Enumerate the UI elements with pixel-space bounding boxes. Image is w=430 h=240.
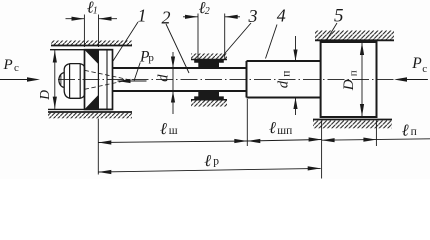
label Dp (341, 70, 359, 91)
dimension l_sh line (98, 141, 247, 143)
washer inner seam (106, 50, 108, 110)
left support bottom hatch (48, 113, 132, 119)
force Pp leader (134, 63, 140, 81)
middle support bottom line (191, 99, 227, 101)
extension line below washer (97, 119, 99, 175)
label 3 (248, 6, 258, 26)
svg-text:1: 1 (93, 6, 98, 17)
svg-text:с: с (422, 63, 427, 75)
label Pp (139, 49, 154, 66)
svg-text:d: d (155, 74, 171, 82)
label l_sh (160, 119, 178, 138)
label D (37, 90, 52, 101)
washer bottom edge (D extension) (48, 108, 113, 110)
washer top edge (D extension) (50, 49, 113, 51)
right support bottom hatch (313, 120, 392, 128)
dimension l2 extension lines (197, 14, 199, 60)
label d (155, 74, 171, 82)
tail rod bottom edge (247, 97, 321, 99)
left support bottom line (48, 111, 132, 113)
dimension l_p line (322, 139, 430, 140)
cone seam line (97, 50, 99, 110)
dimension D line (54, 50, 56, 109)
cone sleeve section bottom (black) (85, 95, 98, 109)
dimension Dp line (361, 43, 363, 117)
label 2 (162, 8, 171, 28)
cone sleeve section top (black) (85, 50, 98, 64)
leader 1 (113, 22, 138, 61)
rod bottom edge (113, 90, 247, 92)
label 4 (277, 6, 286, 26)
svg-text:5: 5 (334, 6, 344, 27)
svg-text:р: р (213, 155, 219, 167)
svg-text:d: d (276, 80, 292, 88)
label 1 (138, 5, 147, 25)
leader 5 (325, 23, 337, 43)
svg-text:4: 4 (277, 6, 286, 26)
label dp (276, 71, 293, 89)
dimension l_shp line (247, 140, 321, 142)
svg-text:2: 2 (205, 6, 210, 17)
bolt nut (64, 64, 84, 99)
middle support top hatch (191, 54, 227, 60)
dimension d line (172, 52, 174, 114)
label 5 (334, 6, 344, 27)
middle support bottom hatch (191, 101, 227, 107)
washer body (85, 50, 113, 110)
right support top hatch (315, 31, 394, 41)
step face line (246, 61, 248, 98)
label Pc right (411, 55, 427, 75)
svg-text:р: р (148, 52, 154, 64)
leader 4 (266, 25, 278, 59)
extension line below piston right (375, 121, 377, 147)
label l1 (87, 0, 98, 17)
bushing bottom (black with wings) (194, 91, 224, 99)
svg-text:ℓ: ℓ (269, 118, 276, 137)
bushing top (black with wings) (194, 60, 224, 68)
extension line below step (246, 99, 248, 146)
dimension l_r line (98, 168, 320, 172)
hidden cone line bottom (85, 80, 130, 89)
piston body (321, 42, 377, 117)
bolt thread end (59, 73, 65, 88)
svg-text:п: п (347, 70, 359, 76)
hidden cone line top (85, 70, 130, 79)
dimension l2 line and arrows (183, 16, 198, 18)
svg-text:P: P (411, 55, 422, 72)
label l2 (199, 0, 210, 17)
middle support top line (191, 59, 227, 61)
rod top edge (113, 67, 247, 69)
svg-text:ш: ш (169, 125, 178, 137)
dimension l1 extension lines (83, 15, 85, 48)
left support top line (51, 45, 132, 47)
dimension l1 line and arrows (66, 18, 85, 20)
right support top line (315, 39, 394, 41)
force Pc left arrow (0, 77, 40, 81)
svg-text:D: D (37, 90, 52, 101)
svg-text:ℓ: ℓ (160, 119, 167, 138)
label l_shp (269, 118, 292, 137)
nut facet lines (69, 64, 71, 98)
label Pc left (3, 57, 20, 74)
svg-text:1: 1 (138, 5, 147, 25)
svg-text:п: п (411, 126, 417, 138)
tail rod top edge (247, 60, 321, 62)
svg-text:ℓ: ℓ (402, 120, 409, 139)
svg-text:P: P (3, 57, 13, 73)
centerline (58, 79, 428, 81)
svg-text:шп: шп (277, 125, 292, 137)
svg-text:3: 3 (248, 6, 258, 26)
extension line below piston left (321, 121, 323, 179)
dimension dp line (295, 36, 297, 61)
left support top hatch (51, 41, 132, 46)
leader 2 (166, 24, 189, 73)
force Pp arrow (118, 80, 147, 82)
svg-text:п: п (280, 71, 292, 77)
svg-text:D: D (341, 79, 357, 91)
leader 3 (220, 23, 251, 59)
right support bottom line (313, 119, 392, 121)
label l_p (402, 120, 417, 139)
force Pc right arrow (394, 77, 427, 81)
label l_r (204, 151, 219, 170)
svg-text:с: с (14, 62, 19, 74)
svg-text:ℓ: ℓ (204, 151, 211, 170)
